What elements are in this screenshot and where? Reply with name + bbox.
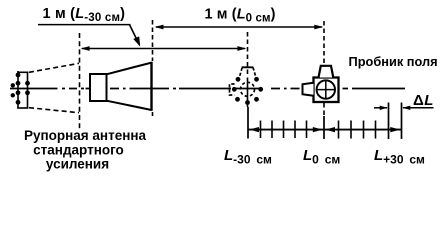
svg-text:1 м (L-30 см): 1 м (L-30 см) xyxy=(43,6,126,24)
center axis line (dash-dot optical axis) xyxy=(10,88,405,90)
svg-text:стандартного: стандартного xyxy=(33,142,124,157)
svg-text:Пробник поля: Пробник поля xyxy=(349,54,438,69)
extension line at solid aperture (L0 horn position) xyxy=(152,20,154,116)
horn aperture mouth line xyxy=(150,62,152,111)
ruler small ticks span 1 xyxy=(261,121,307,139)
flange bolts (dots) xyxy=(11,73,30,105)
svg-text:ΔL: ΔL xyxy=(413,92,434,109)
field probe (solid) at L0: body xyxy=(314,78,339,103)
svg-text:1 м (L0 см): 1 м (L0 см) xyxy=(205,7,276,25)
dimension line: 1 m (L0) xyxy=(156,26,322,28)
svg-text:Рупорная антенна: Рупорная антенна xyxy=(24,128,147,143)
horn antenna solid position: flare xyxy=(107,63,152,110)
svg-text:L+30 см: L+30 см xyxy=(374,147,425,167)
field probe ghost: bolts xyxy=(232,77,263,105)
extension line at ghost aperture (L-30 horn position) xyxy=(79,33,81,129)
horn antenna ghost position: dashed flare xyxy=(29,63,79,112)
field probe ghost (dashed) at L-30: cross vertical xyxy=(247,78,249,104)
field probe ghost: left connector (dashed) xyxy=(230,84,235,95)
ruler main line xyxy=(248,129,402,131)
svg-text:L-30 см: L-30 см xyxy=(224,147,272,167)
field probe: left connector xyxy=(303,83,314,96)
delta-L dimension arrows xyxy=(374,107,387,109)
horn antenna solid position: waveguide xyxy=(90,74,107,101)
field probe ghost: top connector (dashed) xyxy=(242,66,254,68)
ruler tall tick at L-30 xyxy=(247,107,249,139)
svg-text:L0 см: L0 см xyxy=(303,147,340,167)
extension line at probe ghost position (L-30) xyxy=(247,32,249,107)
field probe ghost: dashed circle xyxy=(241,82,255,96)
horn antenna ghost position: waveguide flange plates xyxy=(17,71,28,109)
dimension line: 1 m (L-30) xyxy=(82,48,245,50)
ruler arrows span L0 to L+30 xyxy=(325,127,335,132)
field probe: sensor circle with crosshair xyxy=(317,80,335,98)
label underline for 1 m (L-30 cm) xyxy=(38,24,131,26)
field probe: top connector xyxy=(319,66,334,78)
svg-text:усиления: усиления xyxy=(46,157,109,172)
ruler tall tick at L+30 (delta-L right) xyxy=(401,103,403,140)
ruler small ticks span 2 xyxy=(339,121,376,139)
ruler arrows span L-30 to L0 xyxy=(249,127,259,132)
ruler tall tick before L+30 (delta-L left) xyxy=(388,103,390,140)
leader arrow from label to dimension line xyxy=(130,25,140,45)
L0 centre line (through solid probe and ruler) xyxy=(323,21,325,116)
